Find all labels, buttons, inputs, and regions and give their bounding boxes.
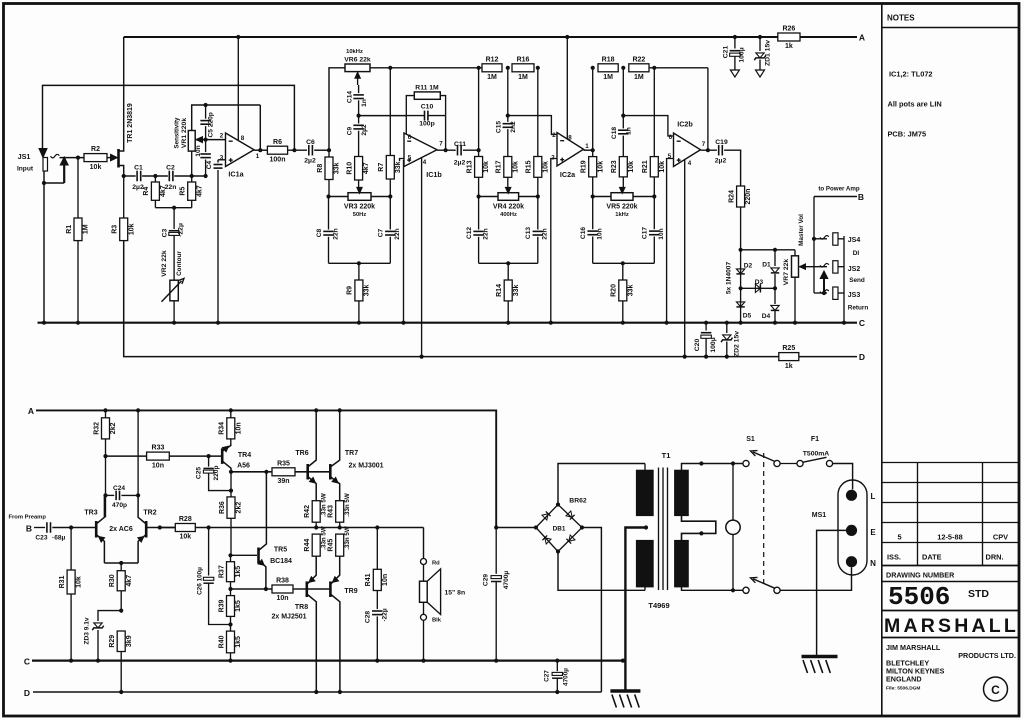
svg-text:220p: 220p (213, 465, 220, 480)
svg-text:22n: 22n (542, 228, 549, 239)
svg-text:.33n 5W: .33n 5W (344, 526, 351, 550)
jack bracket (843, 236, 845, 323)
svg-text:R44: R44 (304, 539, 311, 552)
wire feedback down (259, 105, 261, 150)
wire pin-line IC1b (359, 115, 407, 117)
capacitor C23 (46, 522, 48, 533)
wire R36 to TR5 base (230, 518, 232, 555)
svg-text:C23: C23 (35, 535, 47, 542)
svg-text:50Hz: 50Hz (353, 212, 367, 218)
svg-text:R14: R14 (496, 284, 503, 297)
resistor R45 (336, 534, 344, 556)
svg-text:Rd: Rd (432, 561, 440, 567)
svg-text:Sensitivity: Sensitivity (173, 117, 180, 149)
wire E to earth (817, 530, 846, 655)
svg-text:100µ: 100µ (710, 337, 717, 352)
svg-text:·22µ: ·22µ (381, 608, 388, 622)
resistor R11 (406, 96, 414, 116)
voltage selector (726, 520, 740, 534)
svg-text:10n: 10n (276, 595, 288, 602)
svg-text:10k: 10k (90, 164, 102, 171)
svg-text:22n: 22n (332, 228, 339, 239)
wire riser feedback IC2a (592, 68, 594, 150)
svg-text:D: D (24, 688, 30, 698)
wire down to JS4 (813, 197, 815, 294)
capacitor C16 (592, 197, 594, 230)
svg-text:R41: R41 (365, 573, 372, 586)
resistor R41 (376, 528, 378, 570)
svg-text:VR4 220k: VR4 220k (493, 204, 524, 211)
wire IC2b pin5 to rail C (667, 159, 674, 323)
svg-text:VR5 220k: VR5 220k (606, 204, 637, 211)
wire to TR4 base (169, 455, 222, 457)
capacitor C12 (478, 197, 480, 230)
wire IC1b pin4 to rail D (421, 158, 423, 357)
wire bridge minus (582, 528, 601, 693)
svg-text:R26: R26 (782, 26, 795, 33)
svg-text:1M: 1M (603, 74, 613, 81)
op-amp IC2b (674, 133, 701, 167)
capacitor C18 (618, 129, 629, 131)
wire to TR3 base (52, 527, 96, 529)
wire jack sleeve (43, 171, 45, 323)
resistor R8 (328, 150, 330, 157)
svg-text:Master Vol: Master Vol (798, 214, 805, 246)
junction R12 R16 (506, 66, 510, 70)
svg-text:R33: R33 (152, 445, 165, 452)
wire primary bottom (682, 587, 743, 590)
wire bridge bottom (558, 552, 645, 591)
svg-text:100µ: 100µ (739, 47, 746, 62)
diode D5 (736, 306, 744, 308)
svg-text:470p: 470p (112, 502, 127, 509)
svg-text:8: 8 (241, 135, 245, 142)
svg-text:100p: 100p (419, 121, 435, 128)
resistor R1 (77, 158, 79, 218)
svg-text:C6: C6 (306, 139, 315, 146)
wire fuse to L (833, 464, 853, 490)
resistor R25 (779, 353, 799, 361)
svg-text:R17: R17 (496, 160, 503, 173)
svg-text:JS1: JS1 (18, 152, 31, 161)
wire riser IC1a pin8 (237, 37, 239, 141)
svg-text:R31: R31 (59, 575, 66, 588)
bridge rectifier BR62 DB1 (536, 505, 582, 552)
transistor TR5 (231, 554, 258, 556)
svg-text:ZD3 9.1v: ZD3 9.1v (84, 617, 91, 644)
wire (463, 149, 479, 151)
svg-text:R43: R43 (328, 505, 335, 518)
wire (174, 175, 205, 177)
wire secondary top (644, 464, 646, 471)
transistor TR3 (95, 521, 98, 538)
svg-text:220n: 220n (745, 189, 752, 205)
svg-text:C5 220p: C5 220p (208, 112, 215, 137)
svg-text:C28: C28 (365, 611, 372, 623)
resistor R23 (619, 157, 627, 177)
pot VR7 master vol (794, 250, 796, 256)
wire TR6 TR7 base bus (295, 471, 330, 473)
wire VR1 wiper line (195, 139, 225, 141)
wire eq bus (329, 68, 345, 150)
svg-text:ZD1 15v: ZD1 15v (765, 40, 772, 66)
svg-text:6: 6 (669, 134, 673, 141)
wire rail A top (124, 36, 857, 38)
svg-text:F1: F1 (811, 436, 819, 443)
wire IC2b out (701, 149, 717, 151)
svg-text:33k: 33k (395, 161, 402, 173)
svg-text:400Hz: 400Hz (500, 212, 517, 218)
svg-text:C13: C13 (525, 227, 532, 239)
svg-text:12-5-88: 12-5-88 (937, 533, 962, 542)
svg-text:C: C (859, 318, 865, 328)
pot VR2 contour (170, 280, 178, 301)
svg-text:TR1 2N3819: TR1 2N3819 (127, 103, 134, 143)
svg-text:1M: 1M (634, 74, 644, 81)
svg-text:10k: 10k (659, 161, 666, 173)
capacitor C11 (457, 145, 459, 156)
zener ZD1 (759, 37, 761, 51)
resistor R9 (358, 263, 360, 280)
svg-text:R18: R18 (602, 56, 615, 63)
resistor R6 (267, 146, 287, 154)
svg-text:TR7: TR7 (345, 450, 358, 457)
svg-text:33k: 33k (627, 285, 634, 297)
svg-text:Send: Send (849, 277, 865, 284)
wire VR4 right (519, 196, 538, 198)
svg-text:ENGLAND: ENGLAND (886, 675, 922, 684)
svg-text:2x AC6: 2x AC6 (109, 526, 133, 533)
svg-text:R20: R20 (611, 284, 618, 297)
resistor R36 (230, 472, 232, 497)
wire riser C18 (622, 68, 624, 129)
svg-text:C2: C2 (166, 165, 175, 172)
pot VR3 50Hz (348, 193, 371, 201)
svg-text:C15: C15 (495, 121, 502, 133)
wire emitters join (104, 562, 138, 564)
wire rail C join (621, 659, 625, 663)
svg-text:S1: S1 (746, 436, 755, 443)
resistor R34 (230, 410, 232, 417)
wire input (60, 157, 85, 159)
resistor R18 (598, 64, 618, 72)
svg-text:10k: 10k (128, 223, 135, 235)
wire TR2 collector (137, 410, 139, 495)
resistor R10 (355, 157, 363, 181)
wire riser IC2a pin8 (566, 37, 568, 139)
svg-text:R16: R16 (517, 56, 530, 63)
transistor TR8 (305, 581, 308, 597)
svg-text:E: E (870, 528, 876, 537)
svg-text:4k7: 4k7 (126, 575, 133, 587)
svg-text:Blk: Blk (432, 618, 442, 624)
svg-text:C10: C10 (421, 104, 434, 111)
svg-text:4700µ: 4700µ (563, 668, 570, 686)
diode network top wire (741, 249, 795, 251)
svg-text:5: 5 (408, 155, 412, 162)
wire riser R12 (478, 68, 480, 150)
resistor R4 (154, 176, 156, 182)
wire C18 to R23 (622, 136, 624, 157)
panel divider (881, 4, 883, 715)
svg-text:DRN.: DRN. (986, 553, 1004, 562)
ground ZD1 (756, 70, 765, 77)
diode D4 (771, 309, 779, 311)
pot VR1 sensitivity (188, 131, 195, 152)
svg-text:33k: 33k (513, 285, 520, 297)
svg-text:2µ2: 2µ2 (454, 160, 466, 167)
svg-text:D1: D1 (762, 262, 771, 269)
svg-text:DB1: DB1 (553, 526, 566, 533)
svg-text:B: B (858, 192, 864, 202)
resistor R33 (147, 452, 170, 460)
svg-text:R1: R1 (66, 225, 73, 234)
speaker (423, 528, 425, 559)
wire (288, 149, 307, 151)
svg-text:DI: DI (853, 250, 860, 257)
resistor R40 (230, 616, 232, 631)
svg-text:10n: 10n (195, 145, 202, 156)
wire to node N1 (314, 149, 329, 151)
svg-text:2µ2: 2µ2 (132, 184, 144, 191)
wire VR4 left (479, 196, 498, 198)
resistor R2 (84, 154, 107, 162)
svg-text:10n: 10n (597, 228, 604, 239)
copyright circle (984, 677, 1008, 701)
op-amp IC2a (557, 133, 584, 167)
svg-text:C27: C27 (544, 670, 551, 682)
svg-text:IC2a: IC2a (560, 170, 576, 179)
svg-text:D3: D3 (755, 279, 764, 286)
svg-text:A: A (28, 406, 34, 416)
svg-text:D: D (859, 352, 865, 362)
svg-text:TR2: TR2 (143, 510, 156, 517)
svg-text:4700µ: 4700µ (503, 571, 510, 590)
svg-text:7: 7 (439, 141, 443, 148)
svg-text:D2: D2 (744, 263, 753, 270)
resistor R24 (737, 186, 745, 207)
wire to R24 (724, 150, 741, 186)
svg-text:R3: R3 (112, 225, 119, 234)
wire VR3 left (329, 196, 349, 198)
capacitor C13 (537, 197, 539, 230)
capacitor C5 220p (205, 105, 207, 119)
wire mid line (160, 527, 424, 529)
resistor R38 (272, 585, 293, 593)
capacitor C6 (308, 145, 310, 156)
wire TR4 emitter line (231, 471, 272, 473)
capacitor C14 (353, 94, 364, 96)
wire pin6 IC1b (405, 116, 407, 134)
wire R22 to IC2b out (649, 67, 708, 69)
resistor R19 (592, 150, 594, 156)
svg-text:JS3: JS3 (848, 292, 861, 299)
svg-text:VR7 22k: VR7 22k (783, 259, 790, 286)
resistor R31 (70, 528, 72, 571)
svg-text:R9: R9 (347, 286, 354, 295)
svg-text:TR3: TR3 (84, 510, 97, 517)
svg-text:R19: R19 (581, 160, 588, 173)
svg-text:5x 1N4007: 5x 1N4007 (726, 262, 733, 295)
svg-text:10n: 10n (382, 574, 389, 586)
wire IC1b out (437, 149, 456, 151)
svg-text:R23: R23 (611, 160, 618, 173)
wire R33 line (106, 455, 147, 457)
svg-text:C16: C16 (580, 227, 587, 239)
resistor R29 (117, 631, 125, 652)
svg-text:1k: 1k (785, 363, 793, 370)
svg-text:6: 6 (408, 134, 412, 141)
svg-text:R2: R2 (91, 146, 100, 153)
jack JS3 return (814, 292, 827, 294)
svg-text:4k7: 4k7 (160, 185, 167, 197)
capacitor C28 (376, 591, 378, 610)
svg-text:R35: R35 (277, 460, 290, 467)
svg-text:R12: R12 (486, 56, 499, 63)
transistor TR7 (329, 464, 332, 480)
svg-text:1: 1 (256, 153, 260, 160)
svg-text:C21: C21 (723, 46, 730, 59)
wire C15 to R17 (507, 129, 509, 156)
wire bus (370, 67, 482, 69)
capacitor C19 (718, 145, 720, 156)
op-amp IC1b (404, 133, 437, 167)
svg-text:39n: 39n (277, 478, 289, 485)
wire (358, 100, 360, 123)
wire R2 to TR1 gate (107, 157, 115, 159)
svg-text:R10: R10 (346, 162, 353, 175)
resistor R20 (622, 263, 624, 280)
capacitor C24 (106, 494, 115, 496)
transistor TR1 (117, 149, 120, 168)
resistor R14 (507, 263, 509, 280)
resistor R28 (175, 524, 195, 532)
svg-text:C: C (24, 657, 30, 667)
svg-text:From Preamp: From Preamp (9, 515, 47, 521)
svg-text:ZD2 15v: ZD2 15v (734, 331, 741, 357)
wire IC1a out (254, 149, 267, 151)
capacitor C3 (173, 208, 175, 229)
earth ground CT (610, 689, 640, 693)
svg-text:3k9: 3k9 (126, 635, 133, 647)
svg-text:File: 5506.DGM: File: 5506.DGM (886, 686, 920, 692)
svg-text:1: 1 (585, 143, 589, 150)
capacitor C2 (168, 171, 170, 182)
svg-text:B: B (26, 524, 32, 534)
capacitor C4 (218, 159, 226, 161)
zener ZD3 (98, 611, 121, 621)
svg-text:N: N (870, 559, 876, 568)
svg-text:Contour: Contour (176, 251, 183, 276)
svg-text:C18: C18 (611, 127, 618, 139)
svg-text:R45: R45 (328, 539, 335, 552)
wire secondary CT (644, 525, 648, 529)
svg-text:1n: 1n (361, 99, 368, 107)
wire C1 C2 line (122, 174, 126, 178)
svg-text:1k: 1k (785, 43, 793, 50)
svg-text:C4: C4 (206, 160, 213, 169)
svg-text:5506: 5506 (888, 582, 950, 612)
svg-text:R24: R24 (728, 190, 735, 203)
svg-text:R32: R32 (93, 422, 100, 435)
svg-text:JIM MARSHALL: JIM MARSHALL (886, 643, 941, 652)
capacitor 10n (205, 140, 207, 153)
svg-text:IC1a: IC1a (228, 170, 244, 179)
svg-text:R15: R15 (526, 160, 533, 173)
svg-text:2n2: 2n2 (510, 121, 517, 133)
svg-text:A56: A56 (237, 463, 250, 470)
resistor R22 (629, 64, 649, 72)
svg-text:IC2b: IC2b (677, 120, 693, 129)
wire riser C15 (507, 68, 509, 122)
svg-text:C29: C29 (483, 574, 490, 586)
ground C21 (730, 70, 739, 77)
svg-text:VR2 22k: VR2 22k (161, 250, 168, 277)
jack switch arrow JS2 (823, 275, 825, 293)
svg-text:2µ2: 2µ2 (715, 158, 727, 165)
wire VR5 left (593, 196, 611, 198)
svg-text:C9: C9 (347, 126, 354, 135)
svg-text:·68µ: ·68µ (52, 535, 66, 542)
svg-text:.33n 5W: .33n 5W (344, 493, 351, 517)
svg-text:DRAWING NUMBER: DRAWING NUMBER (886, 571, 955, 580)
svg-text:C8: C8 (316, 228, 323, 237)
wire (358, 131, 360, 157)
svg-text:MARSHALL: MARSHALL (884, 615, 1019, 637)
svg-text:C14: C14 (347, 91, 354, 103)
svg-text:R22: R22 (632, 56, 645, 63)
resistor R21 (653, 68, 655, 157)
svg-text:T1: T1 (662, 451, 671, 460)
svg-text:TR5: TR5 (274, 547, 287, 554)
wire R38 line (231, 588, 273, 590)
svg-text:10k: 10k (512, 161, 519, 173)
svg-text:C17: C17 (642, 227, 649, 239)
resistor R16 (512, 64, 534, 72)
capacitor C27 (555, 659, 559, 663)
resistor R24 bottom wire (740, 207, 742, 323)
wire R38 to TR8 (293, 588, 307, 590)
svg-text:R39: R39 (218, 599, 225, 612)
svg-text:3: 3 (220, 155, 224, 162)
svg-text:D4: D4 (762, 313, 771, 320)
capacitor C10 (406, 115, 424, 117)
svg-text:R7: R7 (378, 163, 385, 172)
transistor TR4 (221, 448, 224, 464)
wire secondary bottom (644, 587, 646, 590)
svg-text:4: 4 (423, 159, 427, 166)
wire VR1 bottom (191, 151, 193, 182)
resistor R3 (120, 218, 128, 241)
wire primary top (682, 464, 743, 471)
resistor R32 (105, 410, 107, 417)
wire IC2a out (584, 149, 593, 151)
svg-text:·22µ: ·22µ (177, 223, 184, 237)
svg-text:1M: 1M (487, 74, 497, 81)
transistor TR9 (329, 581, 332, 597)
svg-text:C19: C19 (715, 139, 728, 146)
wire VR5 right (633, 196, 654, 198)
svg-text:10k: 10k (542, 161, 549, 173)
wire TR2 base (146, 527, 175, 529)
svg-text:Input: Input (17, 166, 34, 173)
wire pin2 IC2a (508, 116, 557, 135)
svg-text:2µ2: 2µ2 (361, 124, 368, 135)
svg-text:C7: C7 (378, 228, 385, 237)
resistor R44 (312, 534, 320, 556)
wire VR6 wiper stem (357, 78, 359, 85)
junction dots rail A (236, 35, 240, 39)
